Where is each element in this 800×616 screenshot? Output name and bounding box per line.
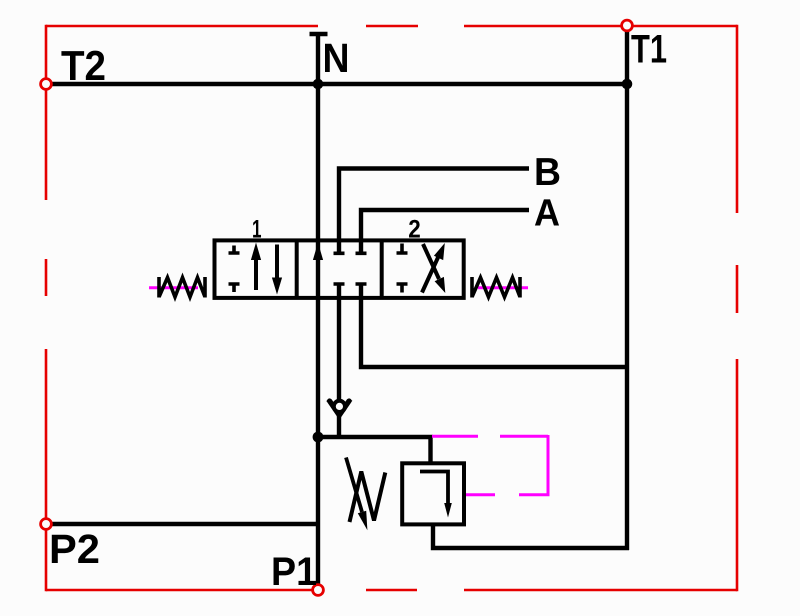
position 2 blocked port bottom: [397, 284, 408, 293]
wire junction to relief valve inlet: [316, 437, 431, 463]
border bottom: [46, 589, 737, 592]
position 1 up arrow: [254, 259, 258, 290]
spring right: [472, 277, 520, 298]
valve V1 body: [215, 240, 464, 298]
port T1 circle: [622, 20, 633, 31]
center position N flow arrow: [313, 243, 323, 261]
position 1 blocked port bottom: [229, 284, 240, 292]
port P2 circle: [41, 519, 52, 530]
position 2 cross arrow up: [422, 257, 438, 293]
wire A: [361, 210, 529, 253]
svg-text:T1: T1: [631, 28, 667, 72]
wire check valve to junction wire: [337, 415, 341, 438]
wire relief valve outlet to T1: [433, 526, 629, 548]
svg-text:T2: T2: [61, 42, 106, 89]
port P1 circle: [313, 585, 324, 596]
relief valve RV1 flow path: [420, 472, 448, 504]
border right: [736, 25, 739, 592]
valve V1 divider right: [380, 240, 384, 298]
node N top tick: [310, 32, 328, 36]
pilot line dashed magenta box bottom: [466, 493, 495, 496]
relief valve RV1 body: [402, 463, 464, 524]
position 1 blocked port top: [229, 246, 240, 254]
svg-text:B: B: [534, 151, 561, 194]
wire B: [339, 169, 529, 254]
svg-text:P2: P2: [49, 526, 100, 572]
junction node N/T2 line: [313, 79, 324, 90]
valve V1 divider left: [295, 240, 299, 298]
wire N vertical: [316, 34, 320, 585]
position 2 cross arrow down: [423, 244, 439, 279]
position 1 down arrow: [275, 245, 279, 279]
enclosure dashed red border: [46, 25, 737, 592]
pilot line dashed magenta box top: [432, 435, 548, 438]
svg-text:N: N: [323, 35, 350, 81]
svg-text:1: 1: [252, 215, 262, 243]
check valve CV1 seat: [330, 401, 349, 415]
relief valve adjustment spring: [350, 472, 386, 523]
position 2 blocked port top: [397, 244, 408, 254]
junction node T1 line: [622, 79, 633, 90]
center position port bars bottom: [334, 282, 367, 286]
pilot line right magenta: [478, 286, 528, 289]
wire T1 vertical: [625, 31, 629, 550]
pilot line left magenta: [149, 286, 198, 289]
center position port bars top: [334, 252, 367, 256]
spring left: [159, 277, 205, 298]
relief valve adjustment arrow: [346, 458, 362, 513]
svg-text:2: 2: [408, 216, 421, 244]
port T2 circle: [41, 79, 52, 90]
svg-text:A: A: [534, 193, 560, 235]
border left: [45, 25, 48, 592]
pilot line dashed magenta box right: [519, 435, 548, 495]
border top: [46, 25, 737, 28]
wire A-return to T1: [361, 284, 627, 367]
svg-text:P1: P1: [271, 550, 317, 594]
check valve CV1 ball: [334, 401, 345, 412]
junction node P line: [313, 432, 324, 443]
wire P2: [51, 522, 318, 526]
wire T2 to T1 horizontal: [51, 82, 627, 86]
wire B-port down to check valve: [337, 284, 341, 403]
